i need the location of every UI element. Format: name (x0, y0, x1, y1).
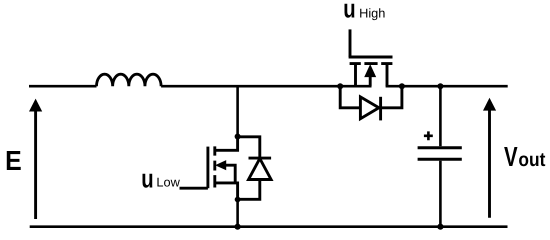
label V_out (504, 141, 546, 172)
wire: top rail right segment (high-side MOSFET drain to output) (386, 85, 508, 88)
diode: low-side body diode (238, 137, 272, 200)
wire: top rail left segment (input to inductor) (29, 85, 97, 88)
source voltage E arrow (29, 99, 42, 219)
wire: low-side source to bottom rail (236, 200, 239, 227)
wire: bottom rail (30, 225, 508, 228)
svg-text:Low: Low (156, 174, 180, 189)
node: low-side source junction dot (235, 197, 241, 203)
capacitor C (output, polarized) (418, 86, 462, 227)
inductor L (97, 74, 162, 86)
transistor: low-side MOSFET (u_Low) (180, 135, 238, 200)
output voltage V_out arrow (483, 98, 496, 218)
transistor: high-side MOSFET (u_High) (349, 57, 393, 86)
diode: high-side body diode (340, 86, 402, 120)
svg-text:out: out (518, 149, 545, 171)
svg-text:High: High (359, 5, 385, 20)
svg-text:E: E (5, 145, 22, 176)
node: high-side left junction dot (337, 83, 343, 89)
svg-text:u: u (343, 0, 355, 24)
wire: top rail middle segment (inductor to high-side MOSFET source) (161, 85, 371, 88)
node: output capacitor top junction dot (437, 83, 443, 89)
node: output capacitor bottom junction dot (437, 224, 443, 230)
node: switch node junction dot (235, 134, 241, 140)
node: bottom rail junction dot (switch leg) (235, 224, 241, 230)
wire: high-side gate lead (349, 29, 352, 57)
svg-text:V: V (504, 141, 518, 172)
svg-text:u: u (141, 164, 153, 194)
label: capacitor plus polarity sign (424, 131, 433, 140)
label u_High (343, 0, 385, 24)
node: high-side right junction dot (399, 83, 405, 89)
wire: switch node vertical drop (236, 86, 239, 136)
label u_Low (141, 164, 180, 194)
